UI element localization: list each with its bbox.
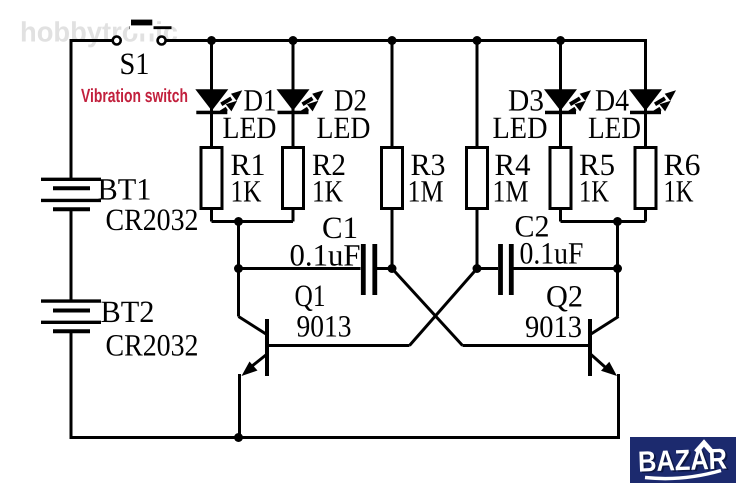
wire Q1 base horizontal — [269, 344, 410, 347]
node top rail dot R3 — [388, 36, 397, 45]
wire Q2 collector column — [616, 222, 619, 317]
wire R6 bottom lead — [644, 209, 647, 222]
svg-text:1M: 1M — [493, 174, 529, 209]
svg-text:Vibration switch: Vibration switch — [81, 86, 188, 107]
battery BT1 — [41, 179, 101, 209]
wire left rail bottom segment — [70, 332, 73, 439]
svg-text:CR2032: CR2032 — [106, 328, 199, 363]
resistor R1 — [201, 148, 222, 209]
wire cross coupling diagonal B (C2 node to Q1 base) — [410, 269, 478, 346]
node R4-C2 junction dot — [473, 264, 482, 273]
wire D3 branch vertical — [559, 39, 562, 148]
wire D1 branch vertical — [210, 39, 213, 148]
wire left rail middle segment — [70, 210, 73, 302]
LED D2 — [277, 89, 324, 114]
capacitor C2 — [501, 244, 512, 295]
svg-text:1K: 1K — [231, 174, 262, 209]
wire R3 bottom lead — [391, 209, 394, 269]
wire R4 bottom lead — [476, 209, 479, 269]
wire R5-R6 junction bar — [561, 220, 646, 223]
watermark BAZAR logo — [630, 437, 736, 483]
wire Q2 emitter lead — [617, 374, 620, 439]
svg-text:BT2: BT2 — [101, 294, 155, 329]
switch S1 — [113, 20, 172, 45]
wire cross coupling diagonal A (C1 node to Q2 base) — [392, 269, 463, 346]
wire R2 bottom lead — [292, 209, 295, 222]
wire top rail — [166, 39, 646, 42]
svg-text:9013: 9013 — [297, 309, 352, 344]
node top rail dot D1 — [207, 36, 216, 45]
wire R1 bottom lead — [210, 209, 213, 222]
svg-text:1K: 1K — [312, 174, 343, 209]
svg-text:LED: LED — [588, 110, 641, 145]
wire Q2 base horizontal — [463, 344, 589, 347]
wire C1 left lead — [239, 267, 361, 270]
wire R3 branch vertical top — [391, 39, 394, 148]
resistor R2 — [283, 148, 304, 209]
wire R1-R2 junction bar — [212, 220, 294, 223]
svg-text:9013: 9013 — [525, 309, 582, 344]
LED D1 — [195, 89, 242, 114]
node R5R6 junction dot — [613, 217, 622, 226]
wire left rail top segment — [71, 41, 113, 180]
wire C2 right lead — [514, 267, 618, 270]
capacitor C1 — [363, 244, 375, 295]
node top rail dot R4 — [473, 36, 482, 45]
node Q2 collector tee dot — [613, 264, 622, 273]
node top rail dot D2 — [289, 36, 298, 45]
resistor R6 — [635, 148, 656, 209]
svg-text:CR2032: CR2032 — [106, 202, 199, 237]
svg-text:S1: S1 — [120, 46, 150, 81]
svg-text:0.1uF: 0.1uF — [520, 236, 584, 271]
wire R5 bottom lead — [559, 209, 562, 222]
wire bottom rail — [70, 436, 621, 439]
wire Q1 collector column — [237, 222, 240, 317]
LED D3 — [544, 89, 591, 114]
wire D2 branch vertical — [292, 39, 295, 148]
transistor Q1 — [239, 317, 270, 377]
node top rail dot D3 — [556, 36, 565, 45]
wire R4 branch vertical top — [476, 39, 479, 148]
wire C1 right lead — [377, 267, 392, 270]
svg-text:1M: 1M — [408, 174, 444, 209]
svg-text:LED: LED — [223, 110, 277, 145]
transistor Q2 — [588, 317, 619, 377]
svg-text:LED: LED — [317, 110, 371, 145]
node Q1 collector tee dot — [234, 264, 243, 273]
LED D4 — [629, 89, 676, 114]
svg-text:1K: 1K — [579, 174, 609, 209]
svg-text:1K: 1K — [664, 174, 694, 209]
resistor R4 — [467, 148, 488, 209]
svg-text:hobbytronic: hobbytronic — [20, 17, 178, 48]
node C1-R3 junction dot — [388, 264, 397, 273]
resistor R3 — [382, 148, 403, 209]
resistor R5 — [550, 148, 571, 209]
wire D4 branch vertical — [644, 39, 647, 148]
wire C2 left lead — [477, 267, 498, 270]
node R1R2 junction dot — [234, 217, 243, 226]
svg-text:0.1uF: 0.1uF — [290, 238, 361, 273]
wire Q1 emitter lead — [238, 374, 241, 439]
battery BT2 — [41, 301, 101, 331]
svg-text:LED: LED — [493, 110, 548, 145]
node bottom rail junction dot — [234, 433, 243, 442]
